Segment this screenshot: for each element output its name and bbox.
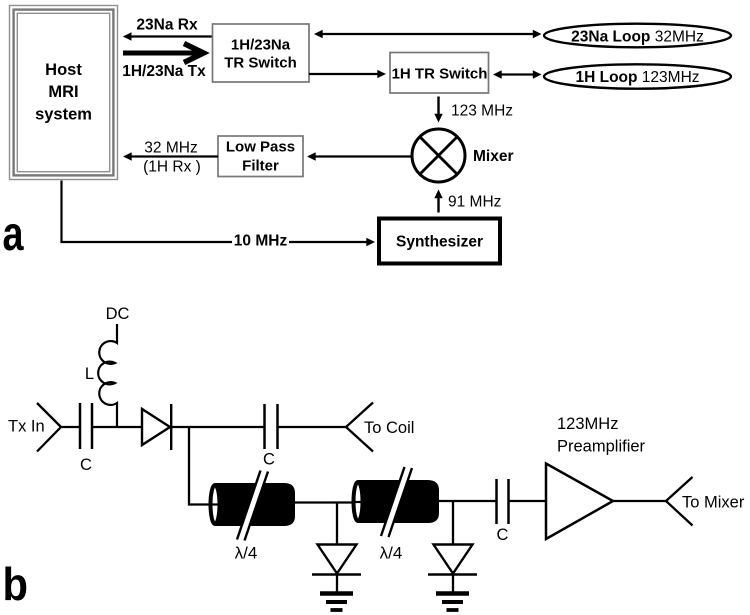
svg-text:(1H Rx ): (1H Rx ): [143, 159, 201, 176]
wire preamplifier to To Mixer: [613, 500, 666, 502]
svg-text:λ/4: λ/4: [235, 544, 258, 563]
wire mixer to low pass filter: [307, 152, 412, 160]
svg-text:b: b: [3, 558, 29, 610]
diode D2 (shunt): [312, 503, 361, 593]
transmission line TL2 lambda/4: [354, 467, 440, 537]
svg-text:1H/23Na Tx: 1H/23Na Tx: [122, 63, 206, 80]
svg-text:91 MHz: 91 MHz: [448, 194, 501, 211]
Host MRI system box: [10, 6, 118, 180]
label 123MHz Preamplifier: [557, 415, 646, 456]
op-amp preamplifier U6: [546, 464, 613, 540]
wire TR switch to 1H TR switch: [309, 70, 386, 78]
svg-text:MRI: MRI: [48, 83, 78, 101]
svg-text:To Mixer: To Mixer: [682, 494, 745, 512]
wire synthesizer to mixer (91 MHz): [434, 190, 442, 213]
svg-text:Synthesizer: Synthesizer: [396, 234, 483, 251]
svg-text:123MHz: 123MHz: [557, 415, 618, 433]
ground G2: [436, 594, 469, 611]
wire TR switch to 23Na loop (double-headed arrow): [314, 30, 542, 38]
wire Tx In to C1: [60, 426, 79, 428]
wire junction down to lambda/4 line TL1: [189, 427, 220, 505]
mixer U3: [412, 129, 465, 182]
1H TR Switch box U2: [390, 53, 489, 94]
svg-text:DC: DC: [106, 305, 130, 323]
svg-text:23Na Loop 32MHz: 23Na Loop 32MHz: [571, 29, 704, 46]
svg-text:L: L: [85, 365, 94, 383]
svg-text:Filter: Filter: [242, 158, 279, 175]
svg-text:23Na Rx: 23Na Rx: [136, 17, 198, 34]
Low Pass Filter box U4: [218, 136, 303, 177]
port To Coil: [346, 403, 373, 452]
ground G1: [320, 594, 353, 611]
transmission line TL1 lambda/4: [211, 471, 296, 541]
svg-text:Host: Host: [45, 61, 82, 79]
svg-text:10 MHz: 10 MHz: [234, 233, 288, 250]
wire low pass filter to host (32 MHz): [123, 152, 218, 160]
wire C1 to D1: [93, 426, 142, 428]
port To Mixer: [666, 477, 693, 526]
svg-text:32 MHz: 32 MHz: [144, 140, 197, 157]
svg-text:1H TR Switch: 1H TR Switch: [392, 66, 488, 83]
23Na Loop antenna: [544, 24, 731, 48]
Synthesizer box U5: [379, 219, 500, 264]
wire 1H/23Na Tx thick arrow (host to TR switch): [123, 44, 204, 63]
wire D1 to C2: [172, 426, 264, 428]
diode D3 (shunt): [428, 501, 477, 592]
1H/23Na TR Switch box U1: [213, 24, 310, 82]
wire TL2 to C3: [439, 500, 496, 502]
svg-text:system: system: [35, 106, 92, 124]
label 32 MHz (1H Rx): [143, 140, 201, 176]
svg-text:C: C: [80, 456, 92, 474]
capacitor C1: [80, 403, 92, 449]
svg-text:TR Switch: TR Switch: [224, 55, 297, 72]
1H Loop antenna: [544, 64, 731, 88]
wire 23Na Rx arrow (TR switch to host): [123, 32, 212, 40]
wire 1H TR switch to 1H loop (double-headed arrow): [493, 70, 542, 78]
svg-text:Preamplifier: Preamplifier: [557, 438, 646, 456]
svg-text:1H Loop 123MHz: 1H Loop 123MHz: [575, 69, 699, 86]
svg-text:To Coil: To Coil: [364, 419, 414, 437]
svg-text:1H/23Na: 1H/23Na: [231, 37, 291, 54]
svg-text:Mixer: Mixer: [473, 148, 514, 165]
svg-text:Low Pass: Low Pass: [226, 139, 295, 156]
svg-text:123 MHz: 123 MHz: [451, 103, 513, 120]
capacitor C2: [265, 404, 278, 449]
port Tx In: [37, 403, 61, 452]
wire C2 to To Coil: [279, 426, 347, 428]
svg-text:λ/4: λ/4: [380, 544, 403, 563]
wire TL1 to TL2: [295, 501, 363, 503]
inductor L1 (bias feed): [98, 324, 117, 427]
wire host to synthesizer (10 MHz): [62, 181, 376, 247]
wire C3 to preamplifier: [509, 500, 546, 502]
capacitor C3: [497, 479, 509, 524]
diode D1: [142, 404, 171, 450]
svg-text:a: a: [3, 208, 24, 261]
svg-text:Tx In: Tx In: [8, 418, 45, 436]
svg-text:C: C: [497, 526, 509, 544]
wire 1H TR switch down to mixer (123 MHz): [434, 97, 442, 123]
svg-text:C: C: [263, 451, 275, 469]
